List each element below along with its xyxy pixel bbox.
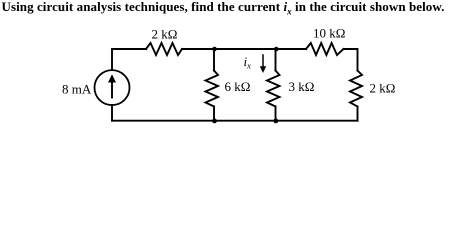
current source circle 8mA xyxy=(95,70,130,105)
source arrow line xyxy=(111,81,113,98)
wire top-left to 2k resistor xyxy=(112,49,146,70)
6k branch bottom wire xyxy=(213,107,215,121)
svg-text:6 kΩ: 6 kΩ xyxy=(225,79,251,94)
resistor R 2k right vertical xyxy=(350,71,362,107)
wire node A to node B xyxy=(214,48,276,50)
wire 2k to node A xyxy=(182,48,214,50)
resistor R 2k horizontal xyxy=(146,43,182,55)
6k branch top wire xyxy=(213,49,215,71)
node B dot top xyxy=(274,47,279,52)
title text xyxy=(2,0,445,15)
ix arrow head xyxy=(260,66,266,73)
3k branch bottom wire xyxy=(275,107,277,121)
wire right branch bottom xyxy=(357,107,359,121)
wire source bottom xyxy=(111,105,113,121)
resistor R 3k vertical xyxy=(267,71,280,107)
ix current arrow line xyxy=(262,55,264,67)
wire node B to 10k resistor xyxy=(276,48,307,50)
3k branch top wire xyxy=(275,49,277,71)
wire 10k to top-right corner down xyxy=(344,49,358,71)
svg-text:10 kΩ: 10 kΩ xyxy=(313,26,345,41)
source arrow head xyxy=(108,74,116,82)
node A dot top xyxy=(212,47,217,52)
svg-text:ix: ix xyxy=(244,54,252,71)
node dot bottom left xyxy=(212,119,217,124)
resistor R 6k vertical xyxy=(206,71,219,107)
svg-text:8 mA: 8 mA xyxy=(62,82,92,97)
resistor R 10k horizontal xyxy=(306,43,344,55)
svg-text:2 kΩ: 2 kΩ xyxy=(152,27,178,42)
svg-text:3 kΩ: 3 kΩ xyxy=(289,79,315,94)
bottom wire xyxy=(112,120,358,122)
node dot bottom right xyxy=(273,119,278,124)
svg-text:2 kΩ: 2 kΩ xyxy=(370,81,396,96)
